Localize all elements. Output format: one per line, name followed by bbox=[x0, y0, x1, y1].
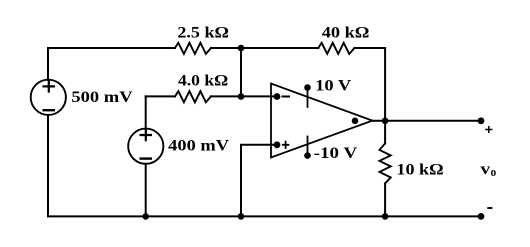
label output minus terminal bbox=[487, 207, 492, 209]
node positive supply bbox=[304, 84, 311, 91]
resistor 10 kΩ bbox=[380, 144, 391, 184]
wire second row left bbox=[146, 95, 175, 97]
svg-text:2.5 kΩ: 2.5 kΩ bbox=[177, 25, 229, 42]
wire output bbox=[372, 120, 481, 122]
svg-text:-10 V: -10 V bbox=[314, 145, 358, 162]
svg-text:4.0 kΩ: 4.0 kΩ bbox=[178, 73, 228, 90]
source V1 500 mV circle bbox=[31, 80, 66, 115]
wire left rail upper bbox=[47, 48, 49, 80]
node V2 bottom bbox=[142, 213, 149, 220]
op-amp plus input sign bbox=[283, 142, 289, 148]
label output plus terminal bbox=[485, 126, 492, 133]
svg-text:10 V: 10 V bbox=[315, 77, 352, 94]
wire 10k upper lead bbox=[384, 121, 386, 144]
node inverting input bbox=[274, 93, 281, 100]
node negative supply bbox=[304, 152, 311, 159]
resistor 4.0 kΩ bbox=[175, 91, 211, 102]
op-amp positive supply pin bbox=[307, 88, 309, 107]
node noninverting bottom bbox=[238, 213, 245, 220]
node output terminal top bbox=[478, 117, 485, 124]
source V2 400 mV circle bbox=[128, 129, 163, 164]
source V1 plus sign bbox=[44, 81, 54, 91]
node top junction bbox=[238, 45, 245, 52]
wire 40k to feedback corner bbox=[355, 48, 386, 121]
source V1 minus sign bbox=[44, 109, 54, 111]
wire noninverting input run bbox=[241, 145, 277, 217]
wire source V2 bottom lead bbox=[145, 164, 147, 217]
node feedback junction bbox=[382, 118, 389, 125]
wire top middle bbox=[211, 47, 318, 49]
node 10k bottom bbox=[382, 213, 389, 220]
wire left rail lower bbox=[47, 115, 49, 216]
svg-text:400 mV: 400 mV bbox=[168, 138, 229, 155]
wire vertical connector node column bbox=[240, 48, 242, 96]
op-amp triangle bbox=[271, 84, 372, 158]
source V2 plus sign bbox=[141, 130, 151, 140]
resistor 2.5 kΩ bbox=[175, 43, 211, 54]
svg-text:40 kΩ: 40 kΩ bbox=[322, 24, 370, 41]
wire top-left horizontal bbox=[48, 47, 175, 49]
wire bottom rail bbox=[48, 215, 481, 217]
wire source V2 top lead bbox=[145, 96, 147, 128]
node output terminal bottom bbox=[478, 213, 485, 220]
svg-text:10 kΩ: 10 kΩ bbox=[396, 162, 443, 179]
wire second row right to inverting input bbox=[211, 95, 277, 97]
node op-amp output bbox=[352, 118, 359, 125]
node second row junction bbox=[238, 93, 245, 100]
op-amp minus input sign bbox=[283, 96, 290, 98]
resistor 40 kΩ bbox=[318, 43, 354, 54]
source V2 minus sign bbox=[141, 157, 151, 159]
svg-text:500 mV: 500 mV bbox=[71, 89, 133, 106]
svg-text:v: v bbox=[480, 161, 490, 178]
svg-text:o: o bbox=[491, 164, 497, 179]
op-amp negative supply pin bbox=[307, 137, 309, 156]
wire 10k lower lead bbox=[384, 183, 386, 216]
node noninverting input bbox=[274, 141, 281, 148]
